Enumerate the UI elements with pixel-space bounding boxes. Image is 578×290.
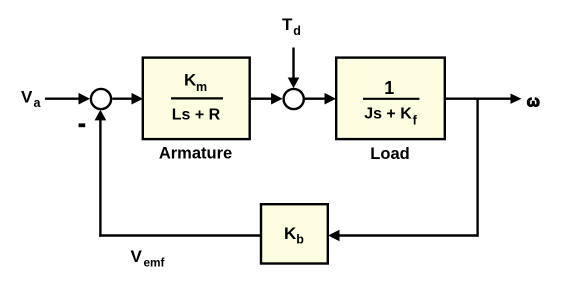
value label Km numerator [184, 70, 207, 94]
wire Armature block to summing junction S2 [250, 93, 283, 105]
block U1 Armature transfer function [143, 58, 250, 140]
svg-text:V: V [21, 88, 33, 107]
svg-text:ω: ω [527, 93, 540, 110]
wire feedback right segment into Kb block [328, 230, 478, 242]
svg-text:1: 1 [384, 78, 394, 98]
block U2 Load transfer function [336, 58, 445, 140]
wire feedback up into S1 [95, 110, 107, 237]
wire Va to summing junction S1 [45, 93, 90, 105]
block U3 Kb feedback gain [261, 204, 328, 263]
wire S2 to Load block [305, 93, 336, 105]
svg-text:K: K [284, 224, 297, 243]
wire Td into summing junction S2 [288, 48, 300, 89]
svg-text:Ls + R: Ls + R [172, 106, 221, 123]
fraction bar of Armature block [171, 97, 223, 99]
svg-text:Armature: Armature [159, 145, 232, 163]
value label Js + Kf denominator [364, 105, 417, 127]
svg-text:m: m [196, 80, 207, 94]
wire branch down from output node [476, 99, 478, 237]
wire Kb block to left corner [99, 234, 261, 236]
svg-text:T: T [282, 15, 293, 34]
svg-text:emf: emf [144, 255, 165, 269]
wire Load block to output with branch node [445, 94, 522, 104]
summing junction S2 [284, 89, 304, 109]
fraction bar of Load block [363, 98, 419, 100]
node Va input label [21, 88, 42, 110]
value label Kb [284, 224, 304, 247]
summing junction S1 [91, 89, 111, 109]
svg-text:b: b [296, 233, 304, 247]
svg-text:a: a [34, 96, 42, 110]
node Vemf feedback label [131, 247, 165, 269]
svg-text:d: d [293, 24, 301, 38]
minus sign at S1 feedback input [79, 123, 86, 127]
svg-text:V: V [131, 247, 143, 266]
svg-text:Load: Load [370, 145, 409, 163]
node Td disturbance label [282, 15, 301, 38]
wire S1 to Armature block [112, 93, 143, 105]
svg-text:Js + K: Js + K [364, 105, 412, 122]
